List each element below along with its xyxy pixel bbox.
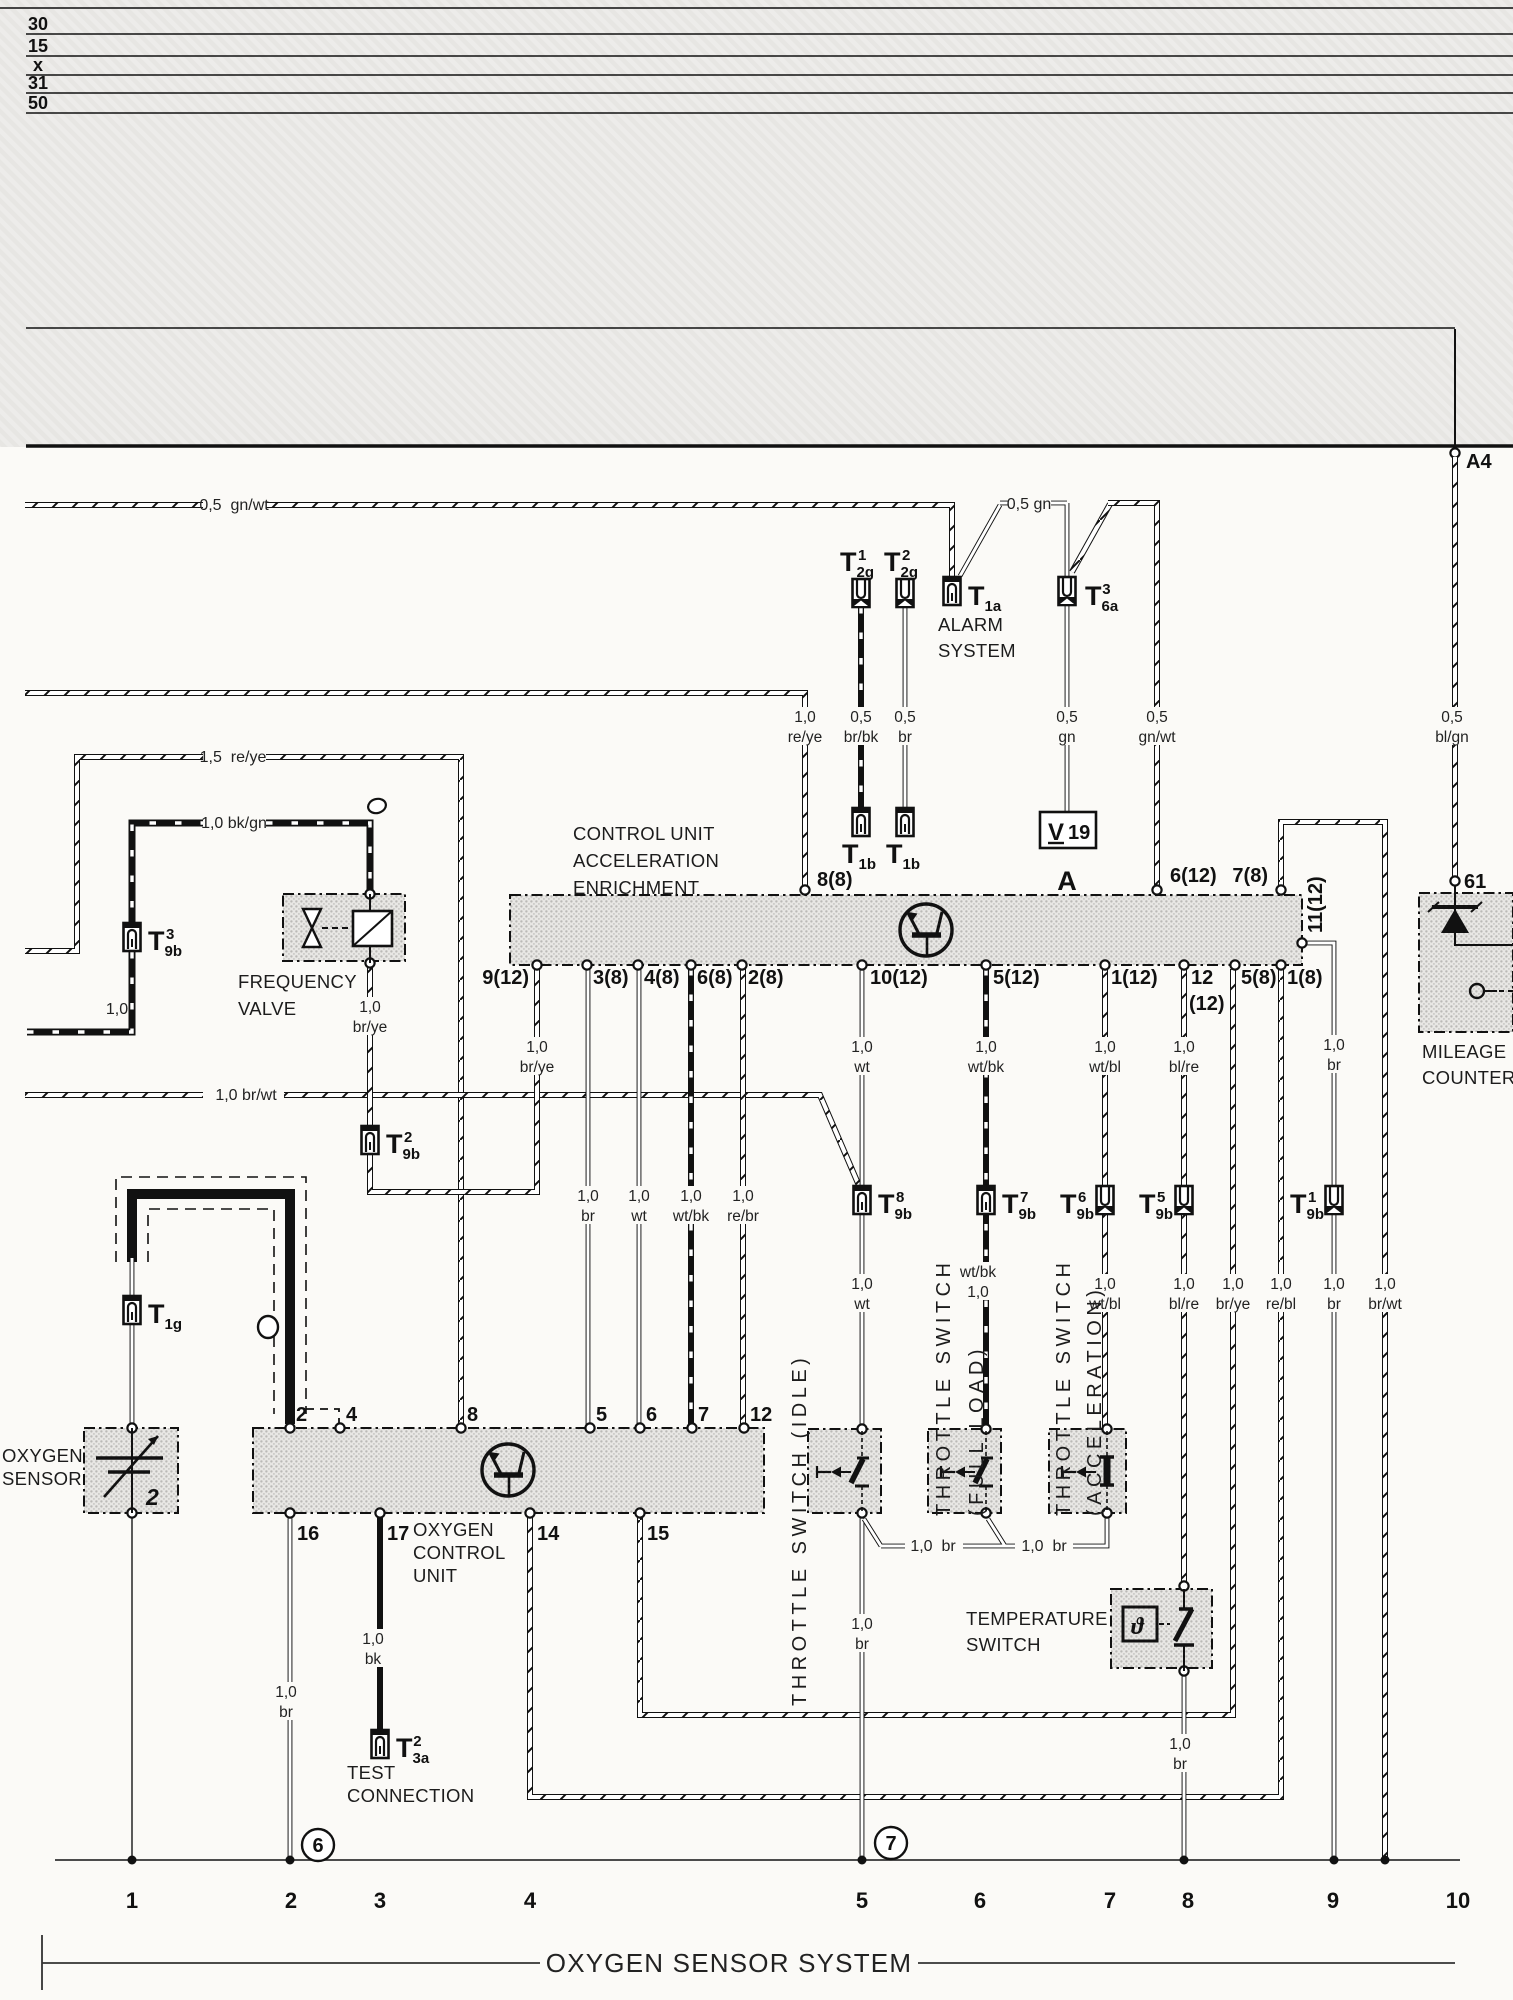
wire 1,0 br/wt left segment [25,1092,203,1098]
pin oxygen sensor top [127,1423,136,1432]
svg-text:br: br [279,1704,293,1721]
label 0,5 gn vertical [1050,707,1085,745]
connector T1b right [897,808,914,836]
svg-text:6: 6 [974,1888,986,1913]
wire 0,5 gn/wt left segment [25,502,203,508]
pin 12(12) of U2 [1179,960,1188,969]
grommet on bk/gn wire [366,797,387,815]
svg-text:3: 3 [374,1888,386,1913]
pin 5(8) of U2 [1230,960,1239,969]
pin 3(8) of U2 [582,960,591,969]
wire 1,0 re/br pin 2(8) to OCU 12 [740,969,746,1428]
pin 8 of U1 [456,1423,465,1432]
svg-text:br: br [855,1636,869,1653]
svg-text:0,5 gn: 0,5 gn [1007,496,1051,513]
svg-text:8: 8 [467,1404,478,1426]
svg-text:CONTROL UNIT: CONTROL UNIT [573,823,715,844]
svg-text:br/ye: br/ye [520,1059,554,1076]
svg-text:11(12): 11(12) [1305,876,1327,933]
svg-text:30: 30 [28,14,48,34]
svg-text:br: br [1173,1756,1187,1773]
svg-text:1,0: 1,0 [1270,1276,1292,1293]
throttle switch (full load) S2 box [928,1429,1001,1513]
svg-text:0,5 gn/wt: 0,5 gn/wt [199,497,269,514]
oxygen control unit box U1 [253,1428,764,1513]
label 1,0 bl/re upper [1158,1037,1211,1075]
oxygen sensor B2 box [84,1428,178,1513]
wire 1,0 bk/gn left segment [27,823,203,1032]
pin frequency valve bottom [365,958,374,967]
mileage counter contact [1470,984,1513,998]
wire 1,0 re/bl OCU 14 to pin 1(8) [530,969,1281,1797]
svg-text:br: br [1327,1296,1341,1313]
wire full load merge diagonal [963,1519,1015,1546]
label 1,0 br/ye at 9(12) [511,1037,564,1075]
power bus line x [26,74,1513,76]
label 0,5 br/bk [835,707,888,745]
pin throttle top 862 [857,1424,866,1433]
svg-text:6: 6 [312,1835,323,1857]
svg-text:1,0: 1,0 [106,1001,128,1018]
svg-text:4: 4 [524,1888,537,1913]
svg-text:bl/re: bl/re [1169,1059,1199,1076]
wire accel merge stub [1073,1517,1107,1546]
svg-text:12: 12 [1191,967,1213,989]
svg-text:1,0: 1,0 [1173,1276,1195,1293]
pin 4(8) of U2 [633,960,642,969]
shielded cable dashed outline [116,1177,306,1414]
connector T1b left [853,808,870,836]
svg-text:1,0 bk/gn: 1,0 bk/gn [201,815,267,832]
frequency valve symbol [303,909,392,947]
label wt/bk lower [952,1262,1005,1300]
connector T9b8 [854,1186,871,1214]
mileage counter diode [1428,885,1513,945]
label 1,0 bk [356,1629,391,1667]
pin 61 [1450,876,1459,885]
label 1,0 br/ye at valve [344,997,397,1035]
svg-text:x: x [33,55,43,75]
throttle switch idle contact [817,1431,869,1512]
wire 1,5 re/ye to OCU pin 8 [266,757,461,1428]
svg-text:31: 31 [28,73,48,93]
svg-text:1,0: 1,0 [851,1039,873,1056]
svg-text:7(8): 7(8) [1232,865,1268,887]
wire 0,5 gn to T6a3 [1000,503,1067,577]
wire 1,0 br pin 11(12) to ground [1302,943,1334,1860]
label 1,0 re/br [717,1186,770,1224]
connector T6a3 [1059,577,1076,605]
label 1,0 wt upper [845,1037,880,1075]
connector T1a [944,577,961,605]
svg-text:0,5: 0,5 [1146,709,1168,726]
ground junction br/wt [1381,1856,1390,1865]
pin 10(12) of U2 [857,960,866,969]
svg-text:bl/re: bl/re [1169,1296,1199,1313]
svg-text:2: 2 [296,1404,307,1426]
svg-text:CONNECTION: CONNECTION [347,1785,474,1806]
svg-text:1,0: 1,0 [680,1188,702,1205]
thick band bottom line [26,444,1513,448]
svg-text:12: 12 [750,1404,772,1426]
svg-text:0,5: 0,5 [1056,709,1078,726]
svg-text:(12): (12) [1189,993,1225,1015]
svg-text:50: 50 [28,93,48,113]
svg-text:1,0: 1,0 [628,1188,650,1205]
wire 1,5 re/ye left segment [25,757,203,951]
connector T9b7 [978,1186,995,1214]
svg-text:16: 16 [297,1523,319,1545]
throttle switch full load contact [941,1431,993,1512]
svg-text:5(12): 5(12) [993,967,1040,989]
svg-text:br/bk: br/bk [844,729,879,746]
svg-text:1,0: 1,0 [359,999,381,1016]
wire 1,0 wt/bk pin 5(12) to full load switch [983,969,989,1429]
pin throttle top 986 [981,1424,990,1433]
svg-text:5(8): 5(8) [1241,967,1277,989]
separator line [26,327,1455,329]
connector T9b1 [1326,1186,1343,1214]
svg-text:THROTTLE SWITCH (IDLE): THROTTLE SWITCH (IDLE) [789,1354,811,1706]
pin temperature switch top [1179,1581,1188,1590]
svg-text:(ACCELERATION): (ACCELERATION) [1084,1286,1106,1516]
wire 1,0 br idle switch to ground [860,1517,865,1860]
svg-text:br/wt: br/wt [1368,1296,1402,1313]
svg-text:wt/bk: wt/bk [672,1208,709,1225]
svg-text:VALVE: VALVE [238,998,296,1019]
pin 5(12) of U2 [981,960,990,969]
wire 0,5 bl/gn A4 to 61 [1452,457,1458,881]
pin 6(12) [1152,885,1161,894]
svg-text:wt: wt [853,1059,870,1076]
svg-text:THROTTLE SWITCH: THROTTLE SWITCH [933,1259,955,1517]
power bus line 15 [26,55,1513,57]
svg-text:1,5 re/ye: 1,5 re/ye [200,749,267,766]
svg-text:re/bl: re/bl [1266,1296,1296,1313]
label 1,0 wt [622,1186,657,1224]
label 0,5 bl/gn [1426,707,1479,745]
wire 1,0 wt/bl pin 1(12) to accel switch [1102,969,1108,1429]
svg-text:1,0: 1,0 [362,1631,384,1648]
svg-text:COUNTER: COUNTER [1422,1067,1513,1088]
svg-text:THROTTLE SWITCH: THROTTLE SWITCH [1053,1259,1075,1517]
svg-text:SYSTEM: SYSTEM [938,640,1016,661]
svg-text:0,5: 0,5 [1441,709,1463,726]
pin 9(12) of U2 [532,960,541,969]
wire 0,5 gn T6a3 to buzzer A [1065,605,1070,812]
pin 8(8) [800,885,809,894]
label 1,0 br lower [1317,1274,1352,1312]
svg-text:8(8): 8(8) [817,869,853,891]
svg-text:2: 2 [285,1888,297,1913]
svg-text:br/ye: br/ye [1216,1296,1250,1313]
wire 1,0 wt pin 4(8) to OCU 6 [637,969,642,1428]
svg-text:1,0: 1,0 [794,709,816,726]
frequency valve Y box [283,894,405,961]
svg-text:17: 17 [387,1523,409,1545]
svg-text:gn: gn [1058,729,1075,746]
wire 0,5 br/bk T2g1-T1b [858,607,864,808]
ground junction 16 [286,1856,295,1865]
label 1,0 br/wt [1359,1274,1412,1312]
svg-text:1,0: 1,0 [1323,1276,1345,1293]
connector T9b2 [362,1126,379,1154]
svg-text:ϑ: ϑ [1131,1614,1145,1640]
pin 7 of U1 [687,1423,696,1432]
svg-text:14: 14 [537,1523,560,1545]
mileage counter box [1419,893,1513,1032]
wire 0,5 gn/wt to T1a [266,505,952,577]
pin oxygen sensor bottom [127,1508,136,1517]
pin 15 of U1 [635,1508,644,1517]
svg-text:9(12): 9(12) [482,967,529,989]
label 1,0 br upper [1317,1035,1352,1073]
svg-text:6(8): 6(8) [697,967,733,989]
connector T9b6 [1097,1186,1114,1214]
svg-text:1,0: 1,0 [967,1284,989,1301]
svg-text:1,0: 1,0 [732,1188,754,1205]
svg-text:(FULL LOAD): (FULL LOAD) [966,1345,988,1516]
pin throttle bottom 1107 [1102,1508,1111,1517]
power bus line 30 [26,33,1513,35]
label 1,0 wt/bk [665,1186,718,1224]
throttle switch (acceleration) S3 box [1049,1429,1126,1513]
svg-text:15: 15 [647,1523,669,1545]
pin 17 of U1 [375,1508,384,1517]
pin throttle bottom 862 [857,1508,866,1517]
svg-text:ACCELERATION: ACCELERATION [573,850,719,871]
svg-text:1,0: 1,0 [851,1276,873,1293]
wire 1,0 wt/bk pin 6(8) to OCU 7 [688,969,694,1428]
label 1,0 bl/re lower [1158,1274,1211,1312]
svg-text:1,0: 1,0 [1169,1736,1191,1753]
wire 1,0 br temperature switch to ground [1182,1671,1187,1860]
oxygen sensor symbol [96,1428,163,1513]
svg-text:1,0: 1,0 [1173,1039,1195,1056]
svg-text:2: 2 [145,1484,159,1510]
svg-text:1,0: 1,0 [577,1188,599,1205]
pin 2(8) of U2 [737,960,746,969]
ground junction br [1330,1856,1339,1865]
pin 14 of U1 [525,1508,534,1517]
wire 0,5 gn diagonal from T1a [960,505,1000,576]
pin 11(12) [1297,938,1306,947]
wire 1,0 bk OCU 17 to test connection [377,1517,383,1731]
wire 1,0 wt pin 10(12) to idle switch [860,969,865,1429]
label 1,0 br at idle [845,1614,880,1652]
wire 0,5 br T2g2-T1b [903,607,908,808]
svg-text:1,0 br: 1,0 br [1021,1538,1067,1555]
svg-text:OXYGEN SENSOR SYSTEM: OXYGEN SENSOR SYSTEM [546,1948,912,1978]
svg-text:1: 1 [126,1888,138,1913]
ground junction oxygen sensor [128,1856,137,1865]
svg-text:A4: A4 [1466,451,1492,473]
svg-text:bk: bk [365,1651,382,1668]
connector T9b5 [1176,1186,1193,1214]
wire 1,0 br pin 3(8) to OCU 5 [586,969,591,1428]
wire 1,0 bk/gn to frequency valve [266,823,370,894]
svg-text:0,5: 0,5 [894,709,916,726]
svg-text:br: br [581,1208,595,1225]
top shaded header band [0,0,1513,447]
svg-text:2(8): 2(8) [748,967,784,989]
pin throttle bottom 986 [981,1508,990,1517]
svg-text:1,0: 1,0 [526,1039,548,1056]
ground rail [55,1859,1460,1861]
buzzer A V19 box [1040,812,1096,848]
pin 4 of U1 [335,1423,344,1432]
svg-text:5: 5 [596,1404,607,1426]
svg-text:15: 15 [28,36,48,56]
svg-text:MILEAGE: MILEAGE [1422,1041,1506,1062]
pin 6(8) of U2 [686,960,695,969]
ground junction idle [858,1856,867,1865]
svg-text:UNIT: UNIT [413,1565,457,1586]
label 0,5 br [888,707,923,745]
pin 7(8) [1276,885,1285,894]
svg-text:re/ye: re/ye [788,729,822,746]
label 1,0 br/ye [1207,1274,1260,1312]
label 1,0 br [571,1186,606,1224]
svg-text:1,0: 1,0 [1222,1276,1244,1293]
pin 16 of U1 [285,1508,294,1517]
pin 12 of U1 [739,1423,748,1432]
svg-text:wt/bk: wt/bk [959,1264,996,1281]
wire 1,0 br/ye OCU 15 to pin 5(8) [640,969,1233,1715]
label 0,5 gn/wt vertical [1131,707,1184,745]
shield cable core [132,1194,290,1424]
label 1,0 wt/bk upper [960,1037,1013,1075]
pin 2 of U1 [285,1423,294,1432]
power bus line 50 [26,112,1513,114]
svg-text:1,0 br: 1,0 br [910,1538,956,1555]
oxygen sensor bottom wire [131,1517,133,1860]
transistor symbol in U1 [482,1444,534,1496]
wire 1,0 br/wt pin 7(8) to ground [1281,822,1385,1860]
pin 1(8) of U2 [1276,960,1285,969]
svg-text:1(8): 1(8) [1287,967,1323,989]
svg-text:1,0: 1,0 [1323,1037,1345,1054]
transistor symbol in U2 [900,904,952,956]
wire 0,5 gn/wt diagonal to T6a3 [1072,504,1110,572]
svg-text:8: 8 [1182,1888,1194,1913]
svg-text:61: 61 [1464,871,1486,893]
connector T9b3 [124,923,141,951]
pin 6 of U1 [635,1423,644,1432]
pin temperature switch bottom [1179,1666,1188,1675]
svg-text:OXYGEN: OXYGEN [2,1445,83,1466]
circled 6 [302,1829,334,1861]
svg-text:10: 10 [1446,1888,1470,1913]
svg-text:1(12): 1(12) [1111,967,1158,989]
svg-text:TEST: TEST [347,1762,395,1783]
svg-text:3(8): 3(8) [593,967,629,989]
temperature switch S4 box [1111,1589,1212,1668]
svg-text:SENSOR: SENSOR [2,1468,82,1489]
control unit acceleration enrichment box U2 [510,895,1302,965]
svg-text:br/ye: br/ye [353,1019,387,1036]
svg-text:7: 7 [885,1833,896,1855]
wire 1,0 br OCU 16 to ground [288,1517,293,1860]
svg-text:1,0: 1,0 [851,1616,873,1633]
svg-text:10(12): 10(12) [870,967,928,989]
wire 1,0 re/ye from left to pin 8(8) [25,693,805,886]
svg-text:wt: wt [853,1296,870,1313]
temperature switch symbol [1123,1589,1194,1671]
connector T1g [124,1296,141,1324]
svg-text:OXYGEN: OXYGEN [413,1519,494,1540]
band divider vertical [1454,329,1456,446]
svg-text:wt/bk: wt/bk [967,1059,1004,1076]
svg-text:br: br [1327,1057,1341,1074]
svg-text:wt/bl: wt/bl [1088,1059,1121,1076]
svg-text:1,0: 1,0 [975,1039,997,1056]
connector T2g2 [897,579,914,607]
grommet on shield [258,1316,278,1338]
svg-text:gn/wt: gn/wt [1138,729,1176,746]
label 1,0 wt/bl lower [1079,1274,1132,1312]
wire idle merge diagonal [864,1519,905,1546]
label 1,0 re/ye [779,707,832,745]
svg-text:1,0: 1,0 [1094,1039,1116,1056]
pin frequency valve top [365,889,374,898]
svg-text:9: 9 [1327,1888,1339,1913]
wire 1,0 br/ye valve to pin 9(12) [370,963,537,1192]
svg-text:br: br [898,729,912,746]
valve internal wire [369,894,371,963]
svg-text:wt: wt [630,1208,647,1225]
throttle switch acceleration contact [1062,1431,1114,1512]
label 1,0 re/bl [1255,1274,1308,1312]
connector T2g1 [853,579,870,607]
svg-text:6: 6 [646,1404,657,1426]
svg-text:4: 4 [346,1404,358,1426]
svg-text:TEMPERATURE: TEMPERATURE [966,1608,1108,1629]
svg-text:bl/gn: bl/gn [1435,729,1469,746]
svg-text:1,0: 1,0 [275,1684,297,1701]
svg-text:A: A [1057,866,1077,896]
svg-text:CONTROL: CONTROL [413,1542,506,1563]
svg-text:19: 19 [1068,822,1090,844]
ground junction temp [1180,1856,1189,1865]
svg-text:1,0 br/wt: 1,0 br/wt [215,1087,277,1104]
pin throttle top 1107 [1102,1424,1111,1433]
pin A4 [1450,448,1459,457]
wire 1,0 bl/re pin 12(12) to temperature switch [1181,969,1187,1589]
label 1,0 br at temp switch [1163,1734,1198,1772]
dashed stub to pin 4 [306,1409,339,1423]
label 1,0 wt/bl upper [1079,1037,1132,1075]
svg-text:0,5: 0,5 [850,709,872,726]
connector T3a2 [372,1730,389,1758]
wire 1,0 br/wt to T9b8 [284,1095,860,1188]
label 1,0 wt lower [845,1274,880,1312]
throttle switch (idle) S1 box [808,1429,881,1513]
pin 1(12) of U2 [1100,960,1109,969]
svg-text:7: 7 [698,1404,709,1426]
svg-text:re/br: re/br [727,1208,759,1225]
svg-text:ALARM: ALARM [938,614,1003,635]
svg-text:1,0: 1,0 [1374,1276,1396,1293]
page top edge line [0,7,1513,9]
svg-text:FREQUENCY: FREQUENCY [238,971,357,992]
wire 0,5 gn/wt to pin 6(12) [1108,503,1157,886]
svg-text:4(8): 4(8) [644,967,680,989]
wire oxygen sensor to T1g [130,1258,135,1428]
pin 5 of U1 [585,1423,594,1432]
svg-text:ENRICHMENT: ENRICHMENT [573,877,699,898]
power bus line 31 [26,92,1513,94]
